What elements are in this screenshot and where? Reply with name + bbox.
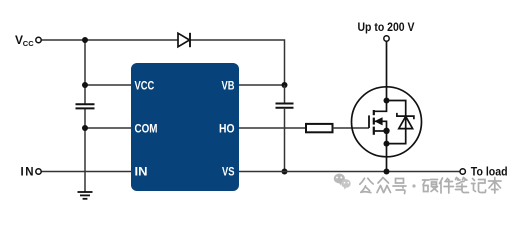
wire left vertical rail (cap C1 bottom down to ground) — [84, 108, 86, 192]
wire drain lead from HV terminal down into circle — [386, 42, 388, 101]
svg-text:VB: VB — [222, 78, 235, 92]
wire VCC pin stub — [85, 84, 131, 86]
junction VB node — [282, 82, 288, 88]
transistor Q1 body arrow — [374, 117, 386, 131]
wire bootstrap cap bottom lead to VS rail — [284, 108, 286, 172]
wire source down to diode join — [386, 131, 388, 144]
公 — [360, 178, 373, 192]
label Up to 200 V — [358, 22, 415, 34]
wire COM pin stub — [85, 127, 131, 129]
svg-text:HO: HO — [219, 121, 235, 135]
wire VS rail (VS pin to To-load terminal) — [239, 171, 460, 173]
wire source lead down to VS rail — [386, 144, 388, 172]
junction Vcc rail / left rail — [82, 37, 88, 43]
wire bootstrap cap top lead — [284, 85, 286, 103]
watermark text 公众号 · 硬件笔记本 — [360, 178, 501, 194]
pin label VS — [222, 165, 235, 179]
transistor Q1 drain contact — [374, 101, 387, 112]
transistor Q1 gate electrode — [368, 115, 370, 128]
label IN — [21, 167, 34, 179]
gate driver IC U1 — [131, 63, 239, 191]
件 — [440, 178, 454, 193]
svg-text:Up to 200 V: Up to 200 V — [358, 22, 415, 34]
body diode of Q1 — [397, 113, 414, 129]
label To load — [471, 166, 508, 178]
capacitor C2 bootstrap — [276, 104, 294, 108]
junction VCC pin node — [82, 82, 88, 88]
terminal Vcc — [36, 37, 41, 42]
junction bootstrap / VS rail — [282, 169, 288, 175]
junction drain node — [384, 98, 390, 104]
junction source / VS rail — [384, 169, 390, 175]
ground — [78, 192, 93, 199]
terminal IN — [36, 169, 41, 174]
wire diode cathode to bootstrap top corner and down to VB node — [190, 40, 285, 85]
watermark middle dot — [412, 184, 415, 187]
记 — [472, 179, 486, 193]
transistor Q1 source contact — [374, 130, 387, 132]
pin label VB — [222, 78, 235, 92]
svg-text:CC: CC — [23, 39, 34, 48]
硬 — [423, 180, 438, 192]
terminal Up to 200 V — [384, 36, 389, 41]
wire body diode branch — [387, 101, 406, 144]
svg-text:IN: IN — [21, 167, 34, 179]
pin label VCC — [135, 78, 155, 92]
wire resistor to gate — [333, 127, 370, 129]
watermark wechat icon — [334, 174, 351, 190]
label Vcc — [15, 33, 34, 48]
wire HO pin to gate resistor — [239, 127, 306, 129]
capacitor C1 (VCC decoupling) — [76, 104, 95, 108]
pin label HO — [219, 121, 235, 135]
号 — [393, 179, 406, 194]
terminal To load — [460, 169, 465, 174]
svg-text:VS: VS — [222, 165, 235, 179]
junction COM pin node — [82, 125, 88, 131]
junction source/body node — [383, 128, 389, 134]
wire left vertical rail x=85 (Vcc node down to cap C1 top) — [84, 40, 86, 104]
pin label COM — [135, 121, 158, 135]
svg-text:VCC: VCC — [135, 78, 155, 92]
笔 — [456, 178, 469, 193]
svg-text:IN: IN — [135, 165, 148, 179]
diode D1 bootstrap — [178, 33, 190, 47]
transistor Q1 MOSFET body circle — [352, 87, 422, 157]
resistor Rg — [306, 124, 333, 132]
wire IN (terminal to IN pin) — [42, 171, 132, 173]
transistor Q1 channel segments — [373, 110, 375, 135]
wire Vcc rail (terminal to diode anode) — [42, 39, 179, 41]
wire VB pin stub — [239, 84, 285, 86]
pin label IN — [135, 165, 148, 179]
svg-text:COM: COM — [135, 121, 158, 135]
svg-text:To load: To load — [471, 166, 508, 178]
众 — [377, 178, 391, 193]
junction source/diode node — [384, 141, 390, 147]
本 — [489, 178, 502, 194]
